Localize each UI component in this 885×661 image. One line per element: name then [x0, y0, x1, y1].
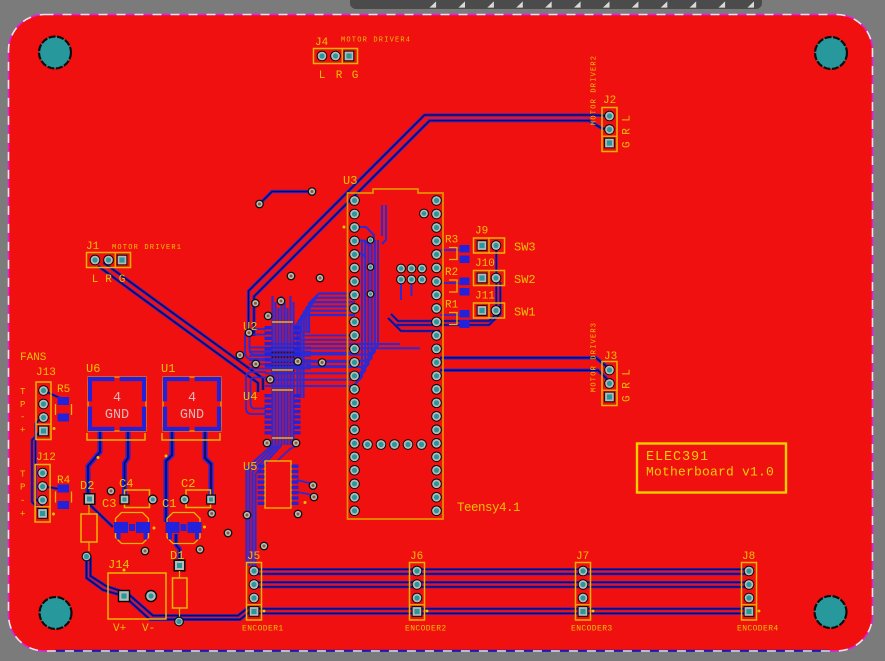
svg-text:GND: GND [105, 408, 129, 423]
silkscreen text box ELEC391 [637, 444, 786, 493]
svg-text:R: R [336, 70, 343, 82]
svg-text:+: + [20, 510, 25, 520]
svg-text:C1: C1 [162, 497, 176, 511]
wire: encoder bus pin1 lower trace [254, 573, 749, 576]
wire: U3 internal hooks [355, 227, 374, 240]
wire: central crossing horizontals [249, 347, 311, 349]
connector J1 motor driver 1 [87, 253, 131, 268]
svg-text:SW2: SW2 [514, 273, 536, 287]
op-amp U3 (Teensy4.1 module) outline [348, 189, 444, 519]
connector J11 [474, 303, 505, 318]
wire: encoder bus pin4 lower trace [254, 612, 749, 615]
connector J9 [474, 238, 505, 253]
voltage regulator U6 [88, 377, 146, 431]
svg-text:G R L: G R L [622, 369, 634, 402]
svg-text:R3: R3 [445, 235, 458, 247]
wire: encoder bus pin2 upper trace [254, 581, 749, 584]
connector J3 motor driver 3 [602, 362, 617, 406]
svg-text:GND: GND [180, 408, 204, 423]
wire: D2 to C3 electrode [90, 505, 113, 527]
svg-text:ENCODER3: ENCODER3 [571, 625, 613, 634]
wire: isolated net with two vias near U3 top-left [260, 192, 313, 205]
connector J2 motor driver 2 [602, 108, 617, 152]
wire: J2 diagonal bus trace A [249, 115, 610, 336]
svg-text:-: - [20, 496, 25, 506]
op-amp U2 [272, 321, 293, 323]
svg-text:MOTOR DRIVER3: MOTOR DRIVER3 [591, 322, 599, 392]
wire: bundle taper to J5 [247, 445, 273, 566]
svg-text:R5: R5 [57, 384, 70, 396]
wire: C1 to D1 [176, 534, 180, 561]
svg-text:L: L [92, 274, 99, 286]
connector J8 encoder header [742, 563, 757, 621]
via [141, 547, 150, 556]
svg-text:J6: J6 [410, 551, 423, 563]
wire: R pads stubs [440, 249, 459, 251]
svg-text:G: G [352, 70, 359, 82]
wire: nested bundle from U2 into U3 interior [265, 240, 362, 386]
wire: U3 to J3 horizontal trace 2 [440, 370, 609, 383]
wire: encoder bus pin2 lower trace [254, 586, 749, 589]
connector J6 encoder header [410, 563, 425, 621]
svg-text:J12: J12 [36, 452, 56, 464]
U6 silk bracket [87, 433, 145, 440]
svg-text:J8: J8 [742, 551, 755, 563]
svg-text:D2: D2 [80, 479, 94, 493]
wire: thick power trace U1 to C1 [166, 429, 172, 522]
via [224, 529, 233, 538]
svg-text:Teensy4.1: Teensy4.1 [457, 501, 520, 515]
svg-text:C4: C4 [119, 477, 133, 491]
svg-text:ENCODER1: ENCODER1 [242, 625, 284, 634]
wire: ground trace along bottom board edge [55, 650, 830, 652]
U3 inner vias [367, 236, 375, 244]
svg-text:J7: J7 [576, 551, 589, 563]
mounting hole H4 [815, 596, 847, 628]
svg-text:L: L [319, 70, 326, 82]
svg-text:P: P [20, 483, 25, 493]
scattered vias [251, 299, 260, 308]
svg-text:U4: U4 [243, 390, 257, 404]
svg-text:SW3: SW3 [514, 241, 536, 255]
svg-text:MOTOR DRIVER4: MOTOR DRIVER4 [341, 37, 411, 45]
svg-text:-: - [20, 413, 25, 423]
wire: U3 left fan-in bundle [309, 294, 355, 334]
svg-text:U1: U1 [161, 362, 175, 376]
connector J13 fan header [36, 382, 51, 440]
mounting hole H3 [40, 597, 72, 629]
svg-text:V-: V- [142, 623, 155, 635]
svg-text:J11: J11 [475, 291, 495, 303]
svg-text:4: 4 [113, 391, 121, 406]
svg-text:J9: J9 [475, 226, 488, 238]
wire: crosshatch dark overlay [272, 347, 274, 371]
svg-text:J13: J13 [36, 367, 56, 379]
via [255, 200, 264, 209]
wire: J1 motor driver diagonal pair [98, 266, 258, 392]
svg-text:J2: J2 [603, 95, 616, 107]
svg-text:R1: R1 [445, 300, 459, 312]
via [207, 509, 216, 518]
svg-text:J5: J5 [247, 551, 260, 563]
svg-text:Motherboard v1.0: Motherboard v1.0 [646, 465, 774, 480]
mounting hole H2 [815, 37, 847, 69]
svg-text:U6: U6 [86, 362, 100, 376]
connector J5 encoder header [247, 563, 262, 621]
wire: U3 left lower horizontals [302, 335, 355, 337]
connector J7 encoder header [576, 563, 591, 621]
svg-text:P: P [20, 400, 25, 410]
connector J4 motor driver 4 [314, 49, 358, 64]
svg-text:T: T [20, 470, 26, 480]
via [82, 552, 92, 562]
wire: thick power trace U6 to C4 [125, 429, 129, 496]
wire: U5 top diagonal [277, 446, 296, 461]
via [196, 545, 205, 554]
wire: J14 V- feed to encoder bus [124, 596, 251, 620]
svg-text:R2: R2 [445, 267, 458, 279]
svg-text:U3: U3 [343, 174, 357, 188]
svg-text:J10: J10 [475, 258, 495, 270]
via [308, 187, 317, 196]
svg-text:V+: V+ [113, 623, 126, 635]
via [174, 617, 184, 627]
voltage regulator U1 [163, 377, 221, 431]
wire: U3 internal vertical pair [381, 205, 383, 236]
svg-text:G: G [119, 274, 126, 286]
via [107, 487, 116, 496]
wire: thick power trace U6 to D2 [88, 429, 100, 494]
svg-text:4: 4 [188, 391, 196, 406]
connector J12 fan header [35, 465, 50, 523]
svg-text:U5: U5 [243, 460, 257, 474]
svg-text:ENCODER4: ENCODER4 [737, 625, 779, 634]
svg-text:C3: C3 [102, 497, 116, 511]
wire: U3 right column to switch headers [388, 250, 496, 325]
svg-text:FANS: FANS [20, 352, 47, 364]
top toolbar fragment [350, 0, 762, 9]
svg-text:J14: J14 [108, 558, 130, 572]
svg-text:T: T [20, 387, 26, 397]
U3 left pin column [349, 195, 360, 206]
U3 inner bottom pin row [362, 439, 373, 450]
svg-text:MOTOR DRIVER2: MOTOR DRIVER2 [591, 55, 599, 125]
U3 inner pad cluster [396, 264, 406, 274]
toolbar tick triangles [430, 1, 437, 7]
wire: central vertical trace bundle [271, 296, 273, 445]
svg-text:R: R [105, 274, 112, 286]
wire: U3 interior crossing to SW1 [394, 324, 440, 331]
U3 right pin column [431, 195, 442, 206]
wire: encoder bus pin1 upper trace [254, 568, 749, 571]
mounting hole H1 [39, 37, 71, 69]
wire: encoder bus pin4 upper trace [254, 607, 749, 610]
svg-text:ELEC391: ELEC391 [646, 450, 709, 465]
svg-text:J1: J1 [86, 241, 100, 253]
U1 silk bracket [162, 433, 220, 440]
svg-text:MOTOR DRIVER1: MOTOR DRIVER1 [112, 244, 182, 252]
connector J10 [474, 271, 505, 286]
svg-text:G R L: G R L [622, 115, 634, 148]
wire: J2 diagonal bus trace B [254, 121, 609, 336]
wire: J13 pad to R5 [44, 391, 63, 400]
wire: U3 to J3 horizontal trace 1 [440, 358, 609, 370]
svg-text:C2: C2 [181, 477, 195, 491]
wire: J14 supply from via [87, 557, 125, 597]
op-amp U4 [272, 389, 293, 391]
svg-text:ENCODER2: ENCODER2 [405, 625, 447, 634]
svg-text:J4: J4 [315, 37, 329, 49]
svg-text:SW1: SW1 [514, 306, 536, 320]
svg-text:+: + [20, 426, 25, 436]
wire: J13 to J12 link pair [32, 428, 44, 513]
wire: U5 right pads to vias [297, 480, 313, 486]
svg-text:J3: J3 [604, 351, 617, 363]
wire: left hook loops beside U2 [245, 329, 266, 359]
wire: thick power trace U1 to C2 [205, 429, 211, 497]
silkscreen pin-1 dots [153, 527, 156, 530]
op-amp U5 [265, 461, 291, 508]
wire: J12 pad to R4 [43, 486, 60, 489]
